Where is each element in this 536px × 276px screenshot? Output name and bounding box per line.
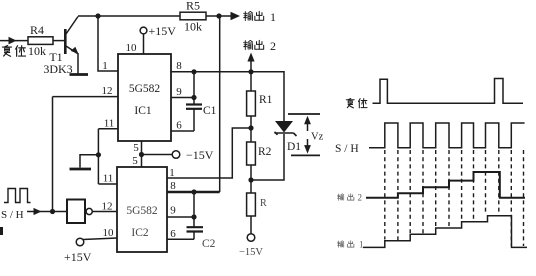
resistor R2 (247, 142, 256, 165)
svg-text:5G582: 5G582 (129, 83, 161, 95)
wire IC2 pin 11 (98, 183, 117, 185)
wire to IC1 pin 1 (98, 16, 118, 71)
svg-text:R4: R4 (30, 23, 44, 37)
wire +15V to IC1 pin 10 (143, 34, 145, 54)
svg-text:+15V: +15V (149, 24, 177, 38)
power +15V top (140, 27, 147, 34)
wire IC1 pin 12 (53, 96, 119, 98)
node Vz annotation (288, 113, 320, 115)
svg-text:−15V: −15V (239, 247, 263, 258)
gate G1 inverter (67, 200, 85, 224)
svg-text:5: 5 (133, 142, 139, 154)
svg-text:6: 6 (176, 120, 182, 132)
resistor R4 (28, 37, 53, 45)
ground bar (70, 168, 92, 171)
svg-text:9: 9 (176, 86, 182, 98)
wire waveform output 1 staircase (363, 216, 527, 248)
wire pin12 vertical down to S/H node (52, 97, 54, 212)
svg-text:1: 1 (270, 10, 276, 24)
wire waveform reset (373, 79, 524, 104)
resistor R5 (180, 12, 206, 20)
svg-text:11: 11 (103, 173, 114, 185)
node junction top rail (95, 13, 100, 18)
svg-text:2: 2 (358, 193, 363, 203)
power -15V bottom (247, 234, 255, 242)
svg-text:10k: 10k (184, 20, 202, 34)
svg-text:12: 12 (102, 201, 113, 213)
svg-text:10: 10 (126, 42, 138, 54)
wire IC2 pin 9 (167, 216, 194, 218)
svg-text:IC2: IC2 (131, 227, 149, 239)
wire IC2 pin 8 (bold) (167, 191, 220, 193)
svg-text:1: 1 (102, 60, 108, 72)
svg-text:Vz: Vz (311, 132, 324, 143)
node waveform label reset (346, 98, 354, 107)
wire diode branch top (251, 72, 284, 121)
resistor R1 (250, 72, 252, 91)
wire to ground stub (80, 155, 98, 168)
node waveform label output 2 (337, 194, 343, 201)
op-amp U1 IC1 box (118, 54, 171, 141)
power -15V mid (142, 154, 173, 156)
transistor T1 (64, 29, 67, 54)
node waveform label output 1 (337, 241, 343, 248)
svg-text:R5: R5 (186, 0, 200, 13)
wire diode branch bottom (251, 134, 284, 180)
svg-text:+15V: +15V (64, 250, 92, 264)
wire R to -15V (250, 216, 252, 234)
node output 2 label (244, 40, 253, 49)
svg-text:10: 10 (103, 227, 115, 239)
wire waveform output 2 staircase (366, 172, 525, 198)
wire IC1 pin 9 (171, 97, 194, 99)
diode D1 zener (275, 121, 293, 133)
capacitor C2 (193, 192, 195, 227)
svg-text:R1: R1 (259, 94, 273, 106)
svg-text:3DK3: 3DK3 (43, 62, 72, 76)
svg-text:10k: 10k (28, 44, 46, 58)
svg-text:C2: C2 (202, 238, 216, 250)
svg-text:8: 8 (176, 60, 182, 72)
wire R5 to output 1 (206, 15, 238, 17)
svg-text:9: 9 (170, 205, 176, 217)
wire IC1 pin 8 (171, 71, 251, 73)
wire IC2 pin 6 (167, 238, 194, 240)
svg-text:5G582: 5G582 (126, 205, 158, 217)
svg-text:5: 5 (132, 155, 138, 167)
svg-text:−15V: −15V (186, 148, 214, 162)
capacitor C1 (193, 72, 195, 104)
svg-text:R2: R2 (258, 146, 272, 158)
svg-text:D1: D1 (287, 141, 301, 153)
svg-text:11: 11 (104, 118, 115, 130)
op-amp U2 IC2 box (117, 167, 167, 252)
svg-text:S / H: S / H (335, 143, 359, 155)
node S/H input (4, 189, 31, 203)
wire IC1 pin 6 (171, 130, 194, 132)
wire pin 11 down to IC2 pin 11 (97, 129, 99, 184)
wire emitter down (77, 53, 79, 74)
svg-text:12: 12 (102, 85, 113, 97)
svg-text:R: R (260, 198, 267, 209)
svg-text:1: 1 (169, 167, 175, 179)
wire collector top rail (78, 15, 180, 17)
svg-text:2: 2 (270, 39, 276, 53)
wire gate output to IC2 pin 12 (92, 211, 117, 213)
wire IC1 pin 11 (98, 128, 118, 130)
wire IC2 pin 1 to R1R2 junction (167, 128, 251, 178)
wire dashed timing lines (385, 150, 524, 246)
svg-text:1: 1 (359, 240, 364, 250)
svg-text:6: 6 (170, 228, 176, 240)
node output 1 label (244, 11, 253, 20)
wire waveform S/H (369, 123, 525, 148)
power +15V bottom left (76, 238, 84, 246)
ground bar (emitter) (70, 73, 89, 76)
wire output 2 arrow (250, 58, 252, 72)
svg-text:8: 8 (170, 180, 176, 192)
wire reset input (0, 40, 28, 42)
wire IC1 pin 5 down to IC2 pin 5 (141, 141, 143, 167)
svg-text:C1: C1 (203, 105, 217, 117)
svg-text:IC1: IC1 (134, 105, 152, 117)
resistor R (247, 193, 256, 216)
svg-text:S / H: S / H (1, 209, 24, 221)
wire R4 to base (53, 40, 65, 42)
edge artifact mark (0, 227, 3, 235)
wire long vertical from R5 junction to IC2 pin 8 (219, 16, 221, 192)
node reset input 复位 (2, 45, 11, 56)
